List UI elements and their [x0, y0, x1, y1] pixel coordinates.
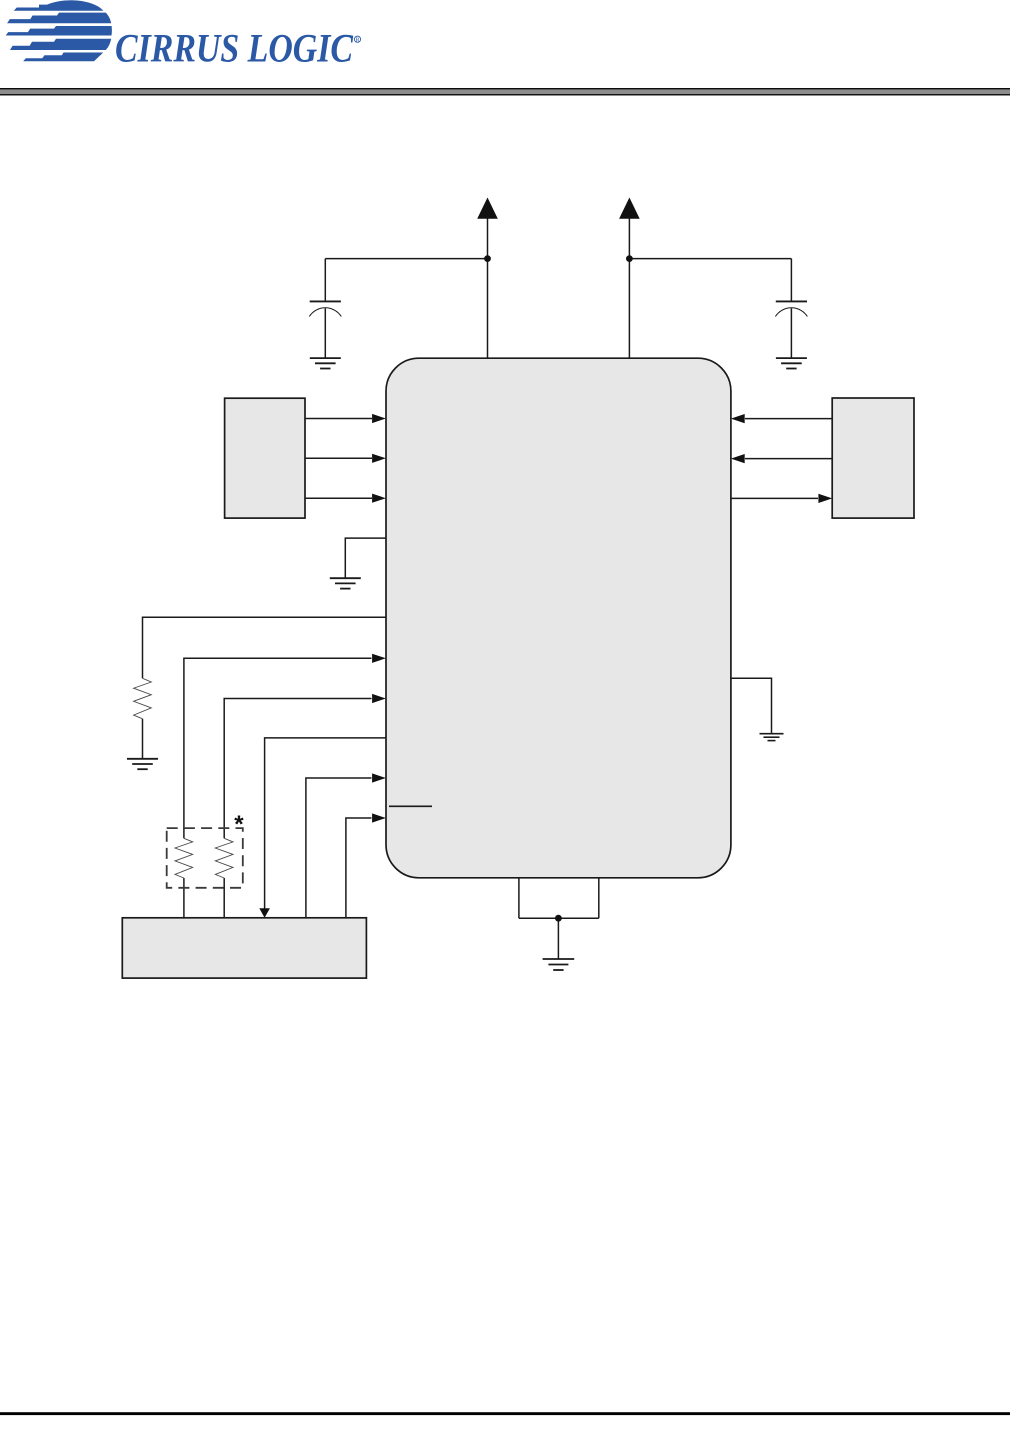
- svg-text:CIRRUS LOGIC: CIRRUS LOGIC: [115, 25, 354, 70]
- svg-text:*: *: [234, 811, 244, 838]
